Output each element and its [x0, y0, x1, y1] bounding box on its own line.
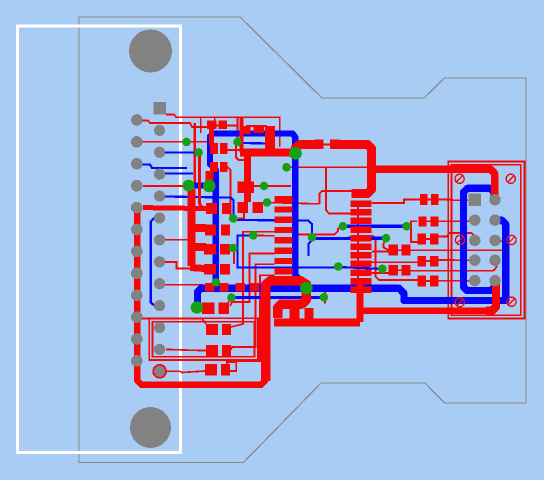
- wire thin W2: [166, 115, 202, 118]
- resistor R7 pads: [204, 244, 216, 255]
- DB connector square pad pin1: [154, 102, 167, 115]
- header J2 square pad: [469, 194, 482, 207]
- wire blue thin B1: [165, 151, 196, 153]
- wire top-layer R1-R2 link: [209, 126, 214, 145]
- wire blue thin B13: [309, 240, 313, 256]
- wire top-layer via S2 riser: [200, 154, 207, 209]
- wire top-layer trunk from DB connector bottom: [137, 208, 266, 385]
- via small S15: [378, 265, 387, 274]
- keepout circle K6: [507, 297, 516, 306]
- mounting hole bottom: [130, 407, 171, 448]
- wire thin W11: [167, 371, 205, 373]
- wire thin W9: [166, 349, 206, 350]
- wire thin W4: [141, 141, 209, 143]
- wire thin W27 via riser below blue: [324, 290, 326, 304]
- via small S11: [212, 278, 221, 287]
- wire thin W15: [253, 185, 261, 187]
- wire thin W29 ladder elbow to R21: [372, 235, 417, 280]
- keepout circle K5: [455, 298, 464, 307]
- resistor R4 pads: [206, 203, 217, 214]
- wire thin W8: [141, 319, 206, 325]
- wire thin W18 R18 wires: [411, 221, 475, 242]
- via small S2: [194, 148, 203, 157]
- wire thin W16 via S5 to ladder riser: [267, 191, 352, 204]
- resistor R5 pads: [238, 202, 249, 213]
- IC U1 pad bars column: [351, 201, 372, 208]
- wire thin W21 R19 wires: [371, 260, 469, 262]
- wire blue thin B6: [343, 224, 407, 227]
- DB connector left column pads: [131, 114, 143, 126]
- resistor R18 pads: [419, 216, 427, 226]
- wire thin vertical drops V1-V4: [231, 232, 275, 327]
- resistor R17 pads: [420, 194, 428, 205]
- wire thin W5c R3 riser: [227, 167, 234, 219]
- resistor R10 pads on blue: [236, 283, 246, 291]
- wire top-layer via V2 riser from R3: [206, 171, 214, 183]
- resistor R15 pads top right: [315, 140, 324, 150]
- wire blue thin B4: [151, 218, 165, 306]
- wire bottom-layer main horizontal to right connector: [198, 220, 506, 304]
- wire top-layer R1 riser: [239, 118, 243, 152]
- keepout circle K4: [507, 235, 516, 244]
- wire thin W28 ladder spine: [357, 201, 359, 294]
- DB connector right column pads: [154, 125, 165, 136]
- wire thin W1: [142, 121, 209, 128]
- wire top-layer vertical through blue: [357, 278, 364, 322]
- via small S6: [282, 163, 291, 172]
- wire thin W2c via S12 stub: [228, 298, 232, 303]
- resistor R21 pads: [417, 276, 426, 287]
- keepout circle K3: [455, 235, 464, 244]
- wire thin W15b S7 links: [165, 211, 244, 264]
- wire blue thin B14: [232, 296, 324, 299]
- wire top-layer S3 drop: [236, 144, 247, 160]
- silkscreen box right connector inner: [452, 165, 521, 315]
- wire bottom-layer right connector top L: [464, 188, 495, 290]
- via small S10: [308, 233, 317, 242]
- wire thin W7: [165, 284, 203, 286]
- resistor R9 pads on blue: [205, 283, 215, 291]
- via big V2: [203, 180, 216, 193]
- silkscreen box lower left inner: [153, 322, 255, 357]
- wire thin W30 comp gap links: [316, 145, 440, 282]
- resistor R12 pads: [206, 324, 218, 335]
- wire thin W24 R22 wire to row3: [439, 233, 475, 240]
- wire bottom-layer V1-V2 link: [186, 183, 212, 189]
- wire thin W22 R20 wires: [371, 261, 497, 273]
- wire blue thin B7: [312, 237, 386, 241]
- via big V4: [191, 301, 203, 313]
- wire blue thin B8: [238, 235, 381, 268]
- via small S14: [334, 262, 343, 271]
- wire top-layer connector stub row: [143, 208, 206, 209]
- wire top-layer horizontal to right connector pad 1: [372, 169, 495, 200]
- wire thin W1b R1 drop: [237, 117, 239, 139]
- keepout circle K1: [455, 174, 464, 183]
- via big V3: [289, 147, 302, 160]
- red annulus pad at DB bottom: [152, 364, 167, 379]
- wire top-layer zigzag to SMD pair: [274, 319, 360, 327]
- resistor R11 pads: [202, 303, 215, 315]
- wire top-layer bar to comp R7: [190, 243, 206, 251]
- resistor R22 pads: [417, 234, 426, 245]
- via small S9: [249, 231, 258, 240]
- via small S5: [263, 198, 272, 207]
- white frame rectangle: [18, 26, 181, 453]
- via small S1: [182, 138, 191, 147]
- resistor R8 pads: [204, 264, 216, 275]
- wire thin W25 compA wires: [372, 240, 508, 252]
- red pad block upper middle: [237, 181, 254, 193]
- resistor R14 pads: [205, 364, 217, 376]
- via small S13: [320, 293, 329, 302]
- wire thin W5d S4 link: [266, 185, 291, 187]
- silkscreen box IC1: [201, 117, 280, 147]
- wire blue thin B5: [234, 220, 312, 233]
- silkscreen box right connector outer: [448, 162, 524, 319]
- wire blue thin B2: [142, 165, 193, 174]
- wire top-layer long horizontal to right connector bottom: [357, 307, 490, 314]
- wire top-layer R15 to right connector area: [338, 145, 372, 194]
- board outline (dimension layer): [79, 17, 526, 463]
- wire thin W3 via feed: [193, 123, 196, 183]
- silkscreen box lower left outer: [149, 318, 258, 360]
- keepout circle K2: [506, 174, 515, 183]
- wire blue thin B9: [242, 142, 271, 145]
- wire thin W5b R2 link: [227, 149, 242, 151]
- resistor R6 pads: [205, 224, 216, 235]
- header J2 round pads: [489, 194, 500, 205]
- resistor R20 pads: [389, 265, 399, 276]
- mounting hole top: [129, 30, 172, 73]
- via small S16: [382, 234, 391, 243]
- resistor R2 pads: [210, 143, 218, 154]
- via small S3: [233, 138, 242, 147]
- wire thin W13: [246, 126, 266, 138]
- via small S8: [229, 244, 238, 253]
- wire thin W19 R17 wires: [372, 199, 468, 203]
- wire top-layer trunk riser thick: [266, 281, 307, 382]
- resistor R1 pads: [207, 121, 217, 130]
- wire thin W26 S9 to S17: [253, 227, 342, 236]
- wire blue thin B3: [165, 197, 234, 216]
- via small S7: [229, 214, 238, 223]
- wire top-layer stub: [265, 126, 275, 153]
- wire thin W5: [143, 185, 184, 187]
- resistor R19 pads: [417, 256, 426, 267]
- resistor R13 pads: [206, 345, 218, 356]
- resistor R3 pads: [210, 162, 218, 172]
- wire top-layer vertical to pad: [244, 153, 251, 203]
- via small S18: [402, 222, 411, 231]
- wire thin W23 R21 wire: [439, 280, 471, 282]
- wire thin W6: [165, 262, 204, 269]
- wire top-layer bar to comp R6: [190, 224, 206, 232]
- wire bottom-layer big blue loop top: [210, 133, 306, 288]
- via small S4: [260, 182, 269, 191]
- wire top-layer via V1 down to comp row: [188, 189, 196, 266]
- wire thin W17 via S6 lines: [287, 167, 368, 213]
- wire top-layer via trunk upper middle: [240, 149, 293, 157]
- resistor R24 pads over blue top: [240, 126, 250, 134]
- wire thin W2b: [215, 118, 237, 126]
- wire top-layer from via V3 up to R15: [296, 145, 317, 155]
- via big V5: [300, 282, 312, 294]
- via small S12: [227, 293, 236, 302]
- via big V1: [183, 180, 195, 192]
- via small S17: [339, 222, 348, 231]
- IC U1 pad bars column 2: [275, 196, 293, 202]
- silkscreen box small: [227, 362, 236, 371]
- wire top-layer connector drop: [486, 282, 496, 311]
- resistor R16 pads zigzag: [289, 308, 299, 319]
- resistor R23 pads: [389, 245, 399, 256]
- wire top-layer bar to comp R8: [190, 268, 205, 269]
